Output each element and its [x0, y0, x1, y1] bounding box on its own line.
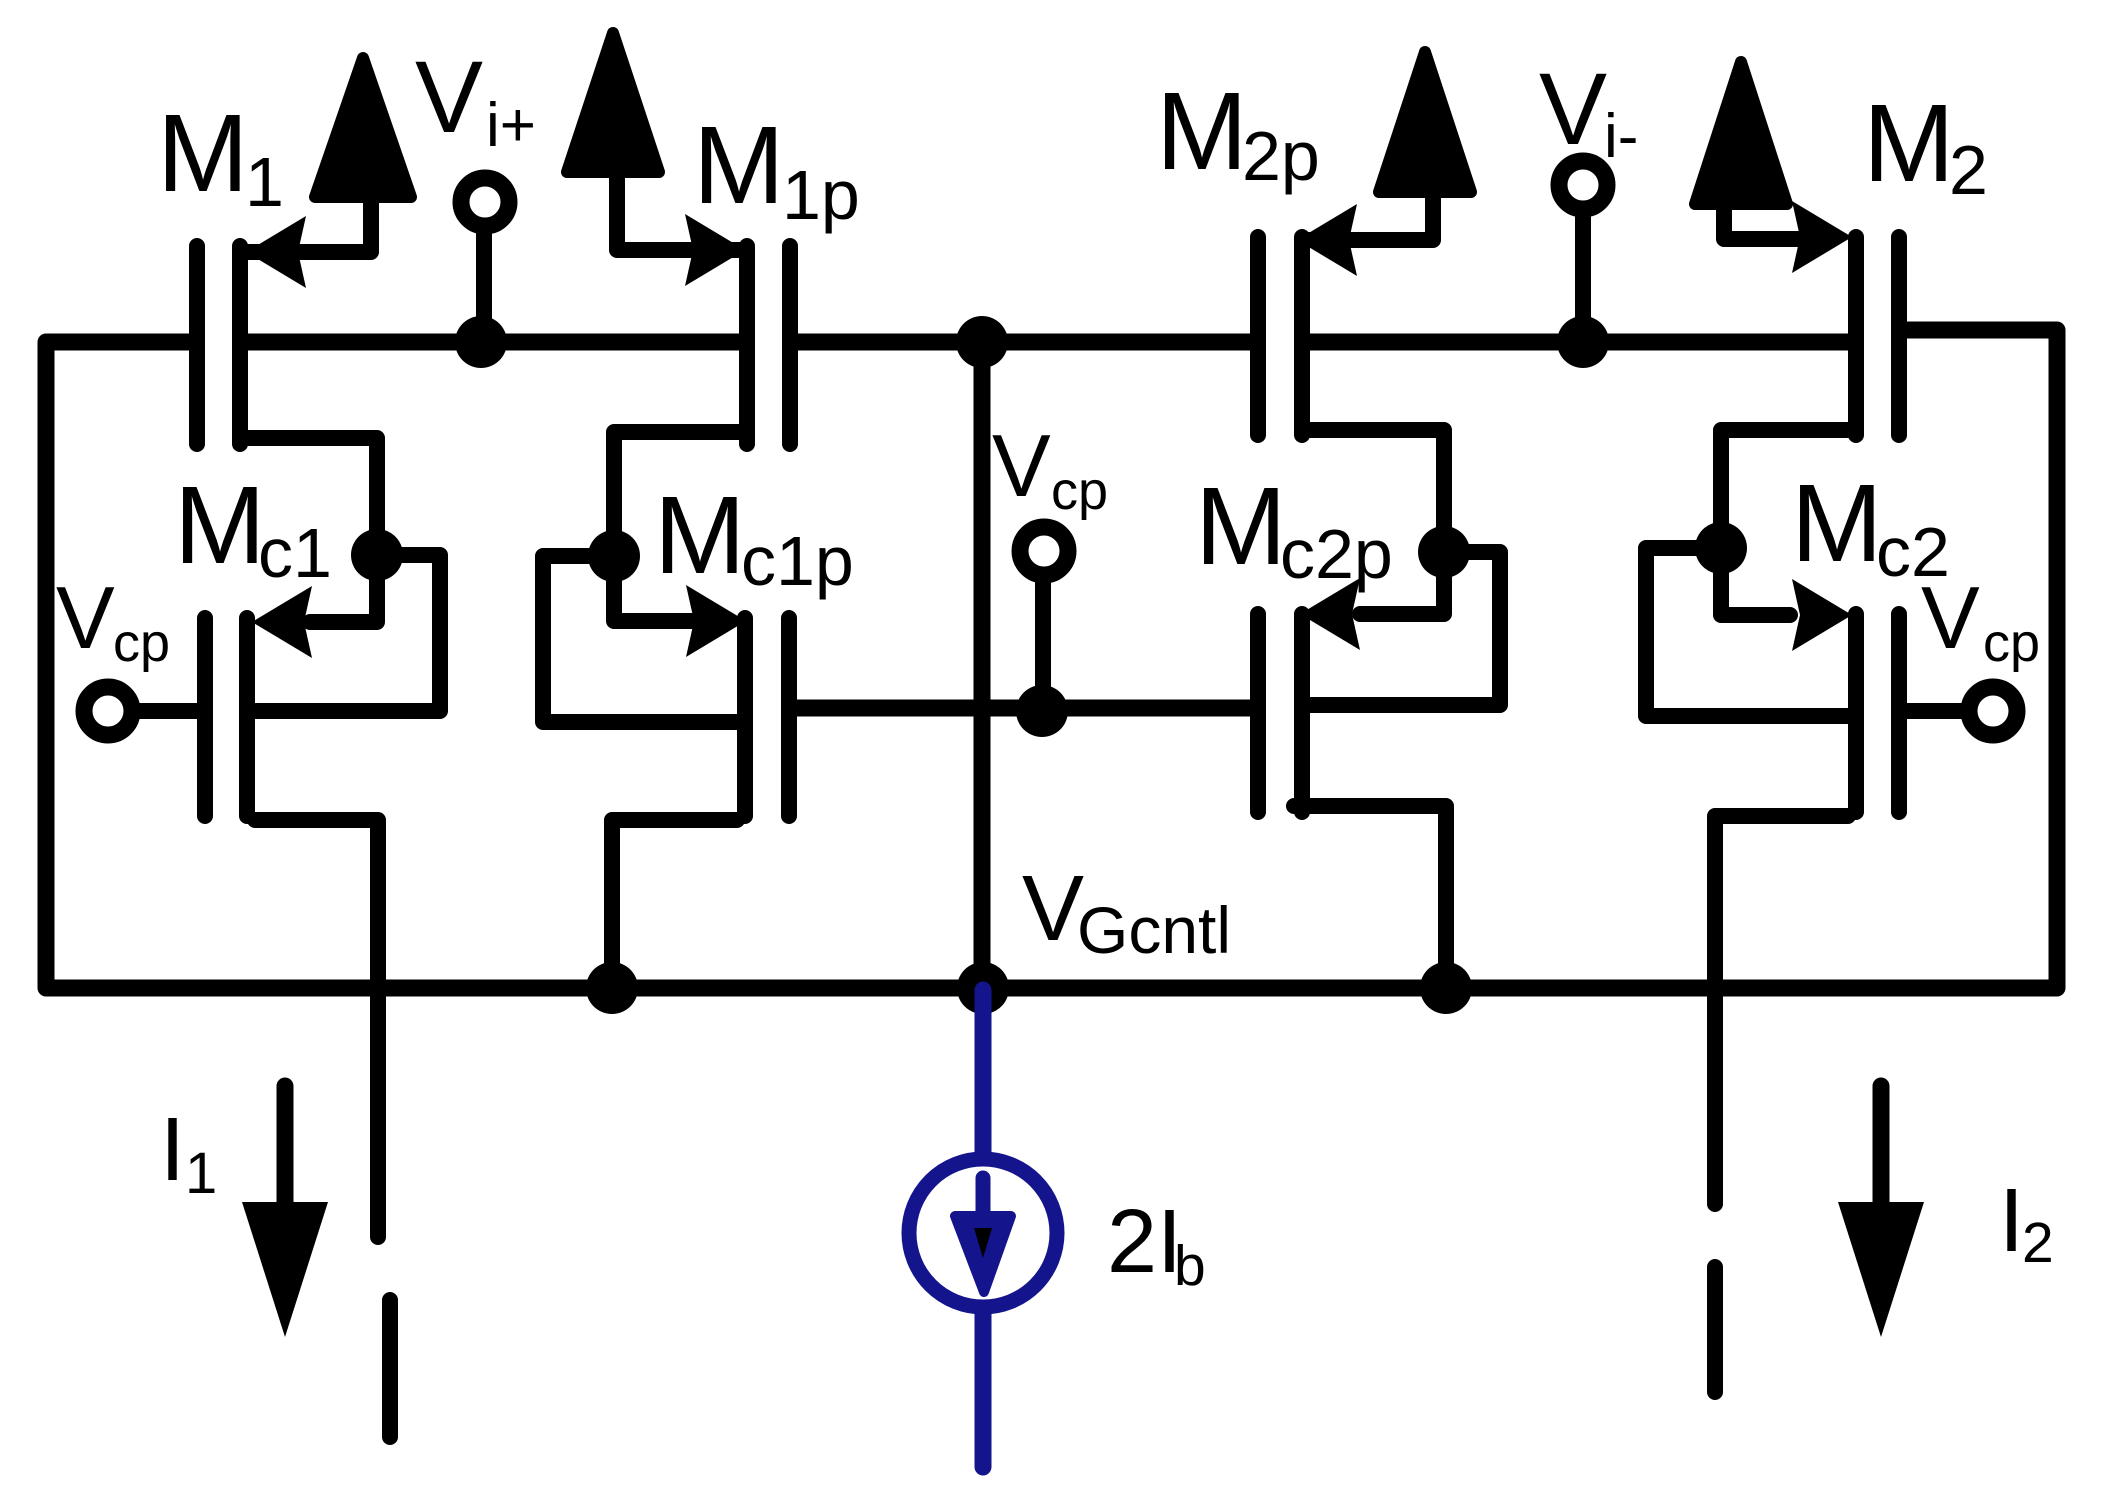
transistor M1p — [614, 175, 790, 540]
node M2p drain / Mc2p source dot — [1418, 526, 1470, 578]
svg-text:c2p: c2p — [1280, 515, 1393, 593]
svg-text:cp: cp — [113, 613, 170, 673]
current arrow I1 — [277, 1086, 294, 1206]
svg-text:V: V — [1539, 52, 1607, 166]
svg-text:1p: 1p — [782, 156, 860, 234]
transistor Mc1p — [543, 556, 789, 970]
transistor Mc2 source arrow — [1792, 579, 1852, 651]
current source 2Ib wire top — [975, 990, 992, 1156]
wire: top row M1p gate to center node to M2p gate — [798, 334, 1250, 351]
transistor M1 source arrow — [246, 216, 306, 288]
power arrow VDD T4 — [1695, 62, 1787, 204]
svg-text:cp: cp — [1051, 461, 1108, 521]
terminal Vi- — [1559, 161, 1607, 209]
svg-text:M: M — [693, 104, 785, 227]
transistor Mc1p source arrow — [686, 585, 746, 657]
svg-text:2: 2 — [1949, 131, 1988, 209]
power arrow VDD T3 — [1379, 52, 1471, 192]
svg-text:V: V — [992, 416, 1051, 515]
svg-text:I: I — [1999, 1171, 2024, 1271]
transistor M2p source arrow — [1297, 204, 1357, 276]
svg-text:c1p: c1p — [741, 522, 854, 600]
svg-text:M: M — [1156, 70, 1248, 193]
svg-text:M: M — [157, 92, 249, 215]
node VGcntl rail dot left (Mc1p drain) — [586, 962, 638, 1014]
wire: center vertical from top node to VGcntl rail — [974, 342, 991, 988]
node M1p drain / Mc1p source dot — [588, 530, 640, 582]
transistor Mc2 — [1646, 548, 1899, 1204]
transistor Mc1 — [205, 555, 440, 1237]
transistor M1 — [197, 202, 377, 540]
svg-text:1: 1 — [185, 1141, 217, 1206]
svg-text:V: V — [415, 40, 483, 154]
node Vi+ junction dot — [455, 316, 507, 368]
current source 2Ib wire bottom — [975, 1310, 992, 1467]
transistor M2 source arrow — [1792, 201, 1852, 273]
power arrow VDD T1 — [315, 58, 411, 197]
wire: I2 output continuation (dashed) — [1707, 1267, 1723, 1392]
wire: I1 output continuation (dashed) — [382, 1300, 398, 1437]
power arrow VDD T2 — [567, 33, 659, 172]
terminal Vcp right — [1969, 687, 2017, 735]
node M1 drain / Mc1 source dot — [351, 529, 403, 581]
node VGcntl rail dot center — [957, 962, 1009, 1014]
svg-text:i+: i+ — [486, 91, 536, 160]
svg-text:b: b — [1174, 1234, 1206, 1298]
svg-text:cp: cp — [1983, 613, 2040, 673]
wire: cascode gate bias row Mc1p gate to Vcp to Mc2p gate — [797, 700, 1250, 717]
svg-text:2: 2 — [2022, 1211, 2054, 1275]
node M2 drain / Mc2 source dot — [1695, 522, 1747, 574]
terminal Vcp center — [1020, 527, 1068, 575]
node VGcntl rail dot right (Mc2p drain) — [1420, 962, 1472, 1014]
terminal Vcp left — [84, 687, 132, 735]
wire: top row M1 body to Vi+ to M1p body — [248, 334, 739, 351]
svg-text:M: M — [654, 474, 746, 597]
svg-text:Gcntl: Gcntl — [1077, 893, 1231, 967]
wire: left edge loop (M1 gate to VGcntl rail) + bottom rail + right edge (M2 gate) — [46, 330, 2057, 988]
wire: top row M2p body to Vi- to M2 body — [1310, 334, 1848, 351]
transistor M1p source arrow — [685, 214, 745, 286]
svg-text:V: V — [1921, 568, 1980, 667]
current source 2Ib inner arrow — [976, 1178, 991, 1212]
svg-text:i-: i- — [1604, 102, 1638, 171]
svg-text:2I: 2I — [1107, 1192, 1182, 1292]
svg-text:c1: c1 — [258, 514, 332, 592]
node Vi- junction dot — [1557, 316, 1609, 368]
transistor Mc2p source arrow — [1300, 578, 1360, 650]
svg-text:M: M — [1863, 82, 1955, 205]
svg-text:V: V — [56, 568, 115, 667]
current arrow I2 — [1873, 1086, 1890, 1206]
node Vcp bias junction dot — [1016, 685, 1068, 737]
svg-text:M: M — [1195, 465, 1287, 588]
svg-text:V: V — [1022, 856, 1084, 960]
current source 2Ib circle — [909, 1159, 1057, 1307]
svg-text:I: I — [160, 1100, 185, 1200]
svg-text:2p: 2p — [1242, 117, 1320, 195]
node center top junction dot — [956, 316, 1008, 368]
transistor M2 — [1721, 210, 1899, 530]
svg-text:1: 1 — [245, 143, 284, 221]
svg-text:M: M — [1791, 462, 1883, 585]
transistor Mc2p — [1258, 552, 1500, 970]
transistor Mc1 source arrow — [252, 586, 312, 658]
transistor M2p — [1258, 198, 1444, 535]
terminal Vi+ — [461, 178, 509, 226]
svg-text:M: M — [174, 464, 266, 587]
